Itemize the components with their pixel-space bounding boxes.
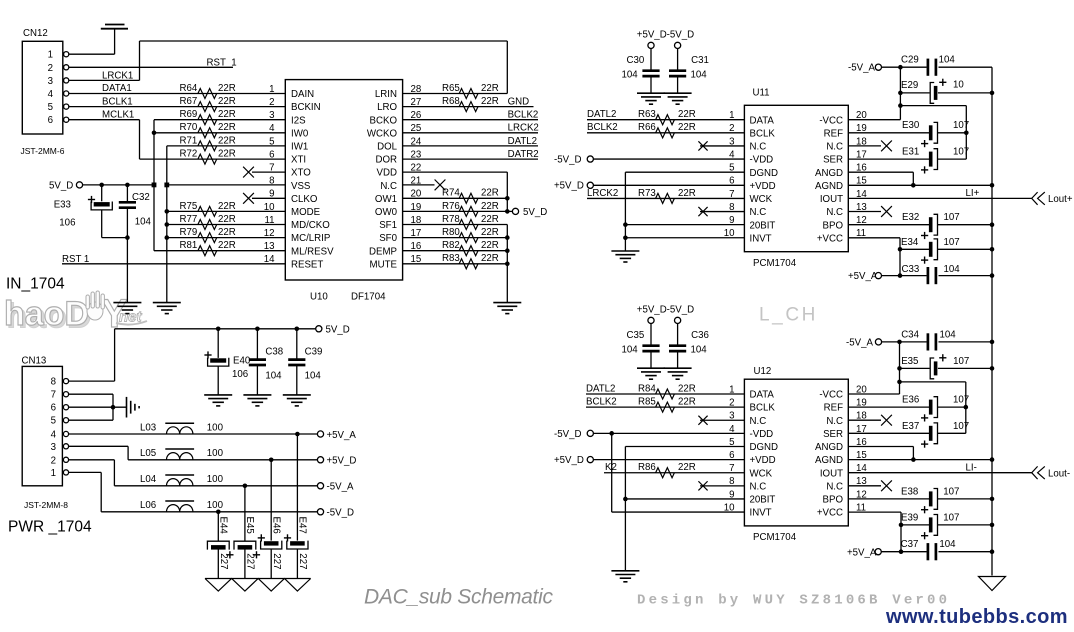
svg-text:106: 106 [232, 369, 248, 380]
svg-text:2: 2 [269, 97, 274, 108]
svg-text:SER: SER [823, 429, 843, 440]
svg-text:100: 100 [207, 448, 224, 459]
svg-text:MUTE: MUTE [370, 259, 398, 270]
svg-text:107: 107 [953, 395, 969, 406]
svg-text:DF1704: DF1704 [351, 292, 386, 303]
svg-text:+5V_D: +5V_D [554, 181, 584, 192]
svg-text:104: 104 [265, 371, 282, 382]
svg-text:6: 6 [51, 403, 56, 414]
svg-text:E38: E38 [901, 486, 918, 497]
svg-text:N.C: N.C [380, 181, 397, 192]
svg-text:22R: 22R [481, 214, 499, 225]
svg-text:104: 104 [939, 539, 956, 550]
svg-text:N.C: N.C [750, 207, 767, 218]
svg-text:C32: C32 [132, 192, 150, 203]
svg-text:7: 7 [269, 163, 274, 174]
svg-text:E39: E39 [901, 512, 918, 523]
svg-text:XTI: XTI [291, 155, 306, 166]
svg-text:N.C: N.C [826, 142, 843, 153]
svg-text:E33: E33 [54, 200, 71, 211]
svg-text:L04: L04 [140, 474, 157, 485]
svg-text:100: 100 [207, 474, 224, 485]
svg-text:IOUT: IOUT [820, 194, 843, 205]
svg-text:107: 107 [943, 512, 959, 523]
svg-text:-VCC: -VCC [819, 390, 843, 401]
svg-text:14: 14 [264, 254, 275, 265]
svg-text:R82: R82 [442, 240, 460, 251]
svg-text:DOL: DOL [377, 142, 398, 153]
svg-text:22R: 22R [218, 83, 236, 94]
svg-text:100: 100 [207, 500, 224, 511]
svg-text:E44: E44 [217, 517, 228, 535]
svg-text:L06: L06 [140, 500, 156, 511]
svg-text:R65: R65 [442, 83, 460, 94]
svg-text:C35: C35 [627, 330, 645, 341]
svg-text:PCM1704: PCM1704 [753, 532, 797, 543]
svg-text:104: 104 [944, 264, 961, 275]
svg-text:104: 104 [691, 69, 708, 80]
svg-text:N.C: N.C [826, 481, 843, 492]
svg-text:MODE: MODE [291, 207, 321, 218]
svg-text:22R: 22R [481, 201, 499, 212]
svg-text:DAIN: DAIN [291, 89, 314, 100]
svg-text:E37: E37 [902, 421, 919, 432]
svg-text:OW1: OW1 [375, 194, 397, 205]
svg-text:13: 13 [264, 241, 275, 252]
svg-text:WCKO: WCKO [367, 128, 398, 139]
svg-text:U11: U11 [753, 88, 770, 99]
svg-text:R75: R75 [180, 201, 198, 212]
svg-text:E34: E34 [901, 237, 919, 248]
svg-text:R73: R73 [638, 188, 656, 199]
svg-text:R64: R64 [180, 83, 198, 94]
svg-text:22R: 22R [218, 122, 236, 133]
svg-text:C36: C36 [691, 330, 709, 341]
svg-text:C34: C34 [901, 330, 919, 341]
svg-text:107: 107 [944, 212, 960, 223]
svg-text:104: 104 [691, 344, 708, 355]
svg-text:C30: C30 [627, 55, 645, 66]
svg-text:22R: 22R [678, 122, 696, 133]
svg-text:BCLK2: BCLK2 [586, 397, 617, 408]
svg-text:I2S: I2S [291, 115, 306, 126]
svg-text:Lout-: Lout- [1048, 468, 1070, 479]
svg-text:-5V_D: -5V_D [327, 508, 354, 519]
svg-text:C39: C39 [305, 346, 323, 357]
svg-text:227: 227 [218, 553, 229, 569]
svg-text:DATA1: DATA1 [102, 83, 132, 94]
svg-text:9: 9 [269, 189, 274, 200]
svg-text:22R: 22R [678, 383, 696, 394]
svg-text:RESET: RESET [291, 259, 323, 270]
svg-text:R83: R83 [442, 253, 460, 264]
svg-text:R74: R74 [442, 188, 460, 199]
svg-text:VSS: VSS [291, 181, 311, 192]
svg-text:IW1: IW1 [291, 142, 308, 153]
svg-text:BCLK1: BCLK1 [102, 96, 133, 107]
svg-text:1: 1 [48, 50, 53, 61]
svg-text:DATL2: DATL2 [586, 383, 615, 394]
svg-text:22R: 22R [218, 201, 236, 212]
svg-text:E31: E31 [902, 147, 919, 158]
svg-text:5V_D: 5V_D [49, 180, 73, 191]
svg-text:22R: 22R [678, 188, 696, 199]
svg-text:IW0: IW0 [291, 128, 309, 139]
svg-text:Lout+: Lout+ [1048, 194, 1073, 205]
svg-text:4: 4 [51, 430, 57, 441]
svg-text:ANGD: ANGD [815, 168, 843, 179]
svg-text:R85: R85 [638, 397, 656, 408]
svg-text:JST-2MM-8: JST-2MM-8 [24, 500, 68, 510]
svg-text:C37: C37 [901, 539, 919, 550]
svg-text:BPO: BPO [823, 220, 844, 231]
svg-text:5V_D: 5V_D [326, 325, 350, 336]
svg-text:107: 107 [943, 486, 959, 497]
svg-text:E36: E36 [902, 395, 919, 406]
svg-text:-5V_A: -5V_A [327, 482, 354, 493]
svg-text:AGND: AGND [815, 455, 843, 466]
svg-text:R69: R69 [180, 109, 198, 120]
svg-text:SER: SER [823, 155, 843, 166]
svg-text:104: 104 [305, 371, 322, 382]
svg-text:C38: C38 [265, 346, 283, 357]
svg-text:R79: R79 [180, 227, 198, 238]
svg-text:REF: REF [824, 128, 843, 139]
svg-text:haoD: haoD [4, 295, 89, 333]
svg-text:22R: 22R [481, 253, 499, 264]
svg-text:3: 3 [48, 76, 53, 87]
svg-text:N.C: N.C [750, 416, 767, 427]
svg-text:227: 227 [297, 553, 308, 569]
svg-text:U12: U12 [754, 366, 772, 377]
svg-text:PCM1704: PCM1704 [753, 258, 797, 269]
svg-text:RST_1: RST_1 [207, 57, 237, 68]
svg-text:R80: R80 [442, 227, 460, 238]
svg-text:R71: R71 [180, 135, 198, 146]
svg-text:1: 1 [51, 468, 56, 479]
svg-text:5: 5 [48, 102, 53, 113]
svg-text:DATR2: DATR2 [508, 149, 539, 160]
svg-text:+5V_D: +5V_D [327, 456, 357, 467]
svg-text:5: 5 [269, 136, 274, 147]
svg-text:R70: R70 [180, 122, 198, 133]
svg-text:L03: L03 [140, 422, 156, 433]
svg-text:107: 107 [953, 147, 969, 158]
svg-text:107: 107 [953, 120, 969, 131]
svg-text:IOUT: IOUT [820, 468, 843, 479]
svg-text:104: 104 [622, 344, 639, 355]
svg-text:R68: R68 [442, 96, 460, 107]
svg-text:AGND: AGND [815, 181, 843, 192]
svg-text:22R: 22R [481, 240, 499, 251]
svg-text:22R: 22R [218, 96, 236, 107]
svg-text:-5V_D: -5V_D [554, 429, 581, 440]
svg-text:3: 3 [51, 442, 56, 453]
svg-text:DATA: DATA [750, 390, 775, 401]
svg-text:104: 104 [622, 69, 639, 80]
svg-text:R84: R84 [638, 383, 656, 394]
svg-text:BPO: BPO [823, 495, 844, 506]
svg-text:R76: R76 [442, 201, 460, 212]
svg-text:DATL2: DATL2 [587, 109, 616, 120]
svg-text:+VCC: +VCC [817, 508, 843, 519]
svg-text:5V_D: 5V_D [523, 207, 547, 218]
svg-text:-5V_D: -5V_D [554, 154, 581, 165]
svg-text:CLKO: CLKO [291, 194, 318, 205]
svg-text:E29: E29 [901, 80, 918, 91]
svg-text:8: 8 [51, 377, 56, 388]
svg-text:L05: L05 [140, 448, 156, 459]
svg-text:LRCK2: LRCK2 [587, 188, 618, 199]
svg-text:E40: E40 [233, 356, 251, 367]
svg-text:10: 10 [264, 202, 275, 213]
svg-text:MCLK1: MCLK1 [102, 109, 134, 120]
svg-text:R72: R72 [180, 149, 198, 160]
svg-text:22R: 22R [218, 135, 236, 146]
svg-text:www.tubebbs.com: www.tubebbs.com [885, 606, 1068, 627]
svg-text:-VDD: -VDD [750, 429, 774, 440]
svg-text:R86: R86 [638, 462, 656, 473]
svg-text:N.C: N.C [826, 416, 843, 427]
svg-text:3: 3 [269, 110, 274, 121]
svg-text:10: 10 [953, 80, 964, 91]
svg-text:SF0: SF0 [379, 233, 397, 244]
svg-text:BCKIN: BCKIN [291, 102, 321, 113]
svg-text:+5V_D-5V_D: +5V_D-5V_D [637, 305, 694, 316]
svg-text:N.C: N.C [750, 142, 767, 153]
svg-text:+5V_A: +5V_A [848, 271, 878, 282]
svg-text:BCKO: BCKO [370, 115, 398, 126]
svg-text:107: 107 [953, 356, 969, 367]
svg-text:104: 104 [940, 330, 957, 341]
svg-text:LRCK2: LRCK2 [508, 123, 539, 134]
svg-text:VDD: VDD [377, 168, 397, 179]
svg-text:-5V_A: -5V_A [848, 63, 875, 74]
svg-text:22R: 22R [678, 109, 696, 120]
svg-text:E32: E32 [902, 212, 919, 223]
svg-text:12: 12 [264, 228, 275, 239]
svg-text:IN_1704: IN_1704 [6, 276, 65, 293]
svg-text:INVT: INVT [750, 233, 772, 244]
svg-text:N.C: N.C [826, 207, 843, 218]
svg-text:INVT: INVT [750, 508, 772, 519]
svg-text:+VDD: +VDD [750, 455, 776, 466]
svg-text:-VDD: -VDD [750, 155, 774, 166]
svg-text:LRO: LRO [377, 102, 397, 113]
svg-text:2: 2 [51, 455, 56, 466]
svg-text:DGND: DGND [750, 168, 779, 179]
svg-text:-5V_A: -5V_A [846, 338, 873, 349]
svg-text:E46: E46 [271, 517, 282, 534]
svg-text:11: 11 [264, 215, 274, 226]
svg-text:CN13: CN13 [22, 356, 47, 367]
svg-text:22R: 22R [481, 188, 499, 199]
svg-text:22R: 22R [678, 397, 696, 408]
svg-text:227: 227 [244, 553, 255, 569]
svg-text:+5V_A: +5V_A [847, 547, 877, 558]
svg-text:DAC_sub Schematic: DAC_sub Schematic [364, 586, 553, 609]
svg-text:-VCC: -VCC [819, 115, 843, 126]
svg-text:227: 227 [271, 553, 282, 569]
svg-text:GND: GND [508, 97, 530, 108]
svg-text:R67: R67 [180, 96, 198, 107]
svg-text:8: 8 [269, 176, 274, 187]
svg-text:1: 1 [269, 84, 274, 95]
svg-text:22R: 22R [218, 227, 236, 238]
svg-text:PWR _1704: PWR _1704 [8, 519, 92, 536]
svg-text:SF1: SF1 [379, 220, 397, 231]
svg-text:R77: R77 [180, 214, 198, 225]
svg-text:BCLK: BCLK [750, 403, 776, 414]
svg-text:C31: C31 [691, 55, 709, 66]
svg-text:ANGD: ANGD [815, 442, 843, 453]
svg-text:20BIT: 20BIT [750, 495, 776, 506]
svg-text:22R: 22R [481, 96, 499, 107]
svg-text:C33: C33 [902, 264, 920, 275]
svg-text:+VCC: +VCC [817, 233, 843, 244]
svg-text:22R: 22R [481, 227, 499, 238]
svg-text:100: 100 [207, 422, 224, 433]
svg-text:22R: 22R [678, 462, 696, 473]
svg-text:4: 4 [48, 89, 54, 100]
svg-text:107: 107 [953, 421, 969, 432]
svg-text:+5V_D-5V_D: +5V_D-5V_D [637, 30, 694, 41]
svg-text:+5V_A: +5V_A [327, 430, 357, 441]
svg-text:R81: R81 [180, 240, 198, 251]
svg-text:K2: K2 [605, 462, 617, 473]
svg-text:E47: E47 [297, 517, 308, 534]
svg-text:MD/CKO: MD/CKO [291, 220, 330, 231]
svg-text:22R: 22R [218, 149, 236, 160]
svg-text:E45: E45 [244, 517, 255, 534]
svg-text:22R: 22R [481, 83, 499, 94]
svg-text:22R: 22R [218, 214, 236, 225]
svg-text:4: 4 [269, 123, 275, 134]
svg-text:6: 6 [48, 115, 53, 126]
svg-text:E30: E30 [902, 120, 920, 131]
svg-text:104: 104 [135, 216, 152, 227]
svg-text:R78: R78 [442, 214, 460, 225]
svg-text:20BIT: 20BIT [750, 220, 776, 231]
svg-text:LRIN: LRIN [375, 89, 397, 100]
svg-text:6: 6 [269, 149, 274, 160]
svg-text:REF: REF [824, 403, 843, 414]
svg-text:DEMP: DEMP [369, 246, 397, 257]
svg-text:E35: E35 [901, 356, 918, 367]
svg-text:OW0: OW0 [375, 207, 398, 218]
svg-text:MC/LRIP: MC/LRIP [291, 233, 330, 244]
svg-text:DATL2: DATL2 [508, 136, 537, 147]
svg-text:BCLK: BCLK [750, 128, 776, 139]
svg-text:DATA: DATA [750, 115, 775, 126]
svg-text:107: 107 [944, 237, 960, 248]
svg-text:+5V_D: +5V_D [554, 455, 584, 466]
svg-text:LI-: LI- [966, 462, 977, 473]
svg-text:DGND: DGND [750, 442, 779, 453]
svg-text:2: 2 [48, 63, 53, 74]
svg-text:ML/RESV: ML/RESV [291, 246, 334, 257]
svg-text:106: 106 [59, 218, 75, 229]
svg-text:R66: R66 [638, 122, 656, 133]
svg-text:22R: 22R [218, 109, 236, 120]
svg-text:DOR: DOR [375, 155, 397, 166]
svg-text:+VDD: +VDD [750, 181, 776, 192]
svg-text:5: 5 [51, 416, 56, 427]
svg-text:104: 104 [939, 55, 956, 66]
svg-text:CN12: CN12 [23, 28, 48, 39]
svg-text:JST-2MM-6: JST-2MM-6 [21, 146, 65, 156]
svg-text:L_CH: L_CH [759, 305, 818, 326]
svg-text:WCK: WCK [750, 194, 773, 205]
svg-text:22R: 22R [218, 240, 236, 251]
svg-text:R63: R63 [638, 109, 656, 120]
svg-text:7: 7 [51, 390, 56, 401]
svg-text:LRCK1: LRCK1 [102, 70, 133, 81]
svg-text:C29: C29 [901, 55, 919, 66]
svg-text:BCLK2: BCLK2 [508, 110, 539, 121]
svg-text:BCLK2: BCLK2 [587, 122, 618, 133]
svg-text:LI+: LI+ [966, 188, 980, 199]
svg-text:N.C: N.C [750, 481, 767, 492]
svg-text:XTO: XTO [291, 168, 311, 179]
svg-text:WCK: WCK [750, 468, 773, 479]
svg-text:U10: U10 [310, 292, 328, 303]
